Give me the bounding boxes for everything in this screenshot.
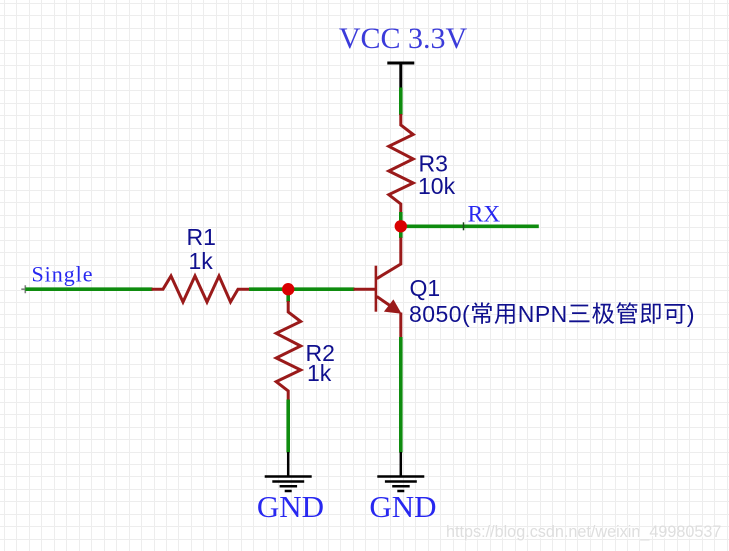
svg-text:1k: 1k bbox=[307, 360, 332, 386]
svg-text:GND: GND bbox=[369, 489, 436, 524]
power symbol VCC bar bbox=[387, 63, 414, 89]
emitter arrowhead Q1 bbox=[384, 299, 402, 313]
wire Single to R1 bbox=[25, 287, 152, 291]
wire joint tick on RX wire bbox=[463, 222, 465, 230]
base bar Q1 bbox=[375, 266, 378, 312]
wire base node to Q1 base bbox=[288, 287, 354, 291]
wire R3 to collector node bbox=[399, 212, 403, 238]
svg-text:VCC 3.3V: VCC 3.3V bbox=[339, 22, 468, 55]
resistor R2 bbox=[276, 301, 301, 401]
wire VCC bar to R3 bbox=[399, 88, 403, 116]
svg-text:1k: 1k bbox=[189, 248, 214, 274]
junction node at R3 / RX / collector bbox=[395, 220, 407, 232]
junction node at R1 / R2 / base bbox=[282, 283, 294, 295]
svg-text:RX: RX bbox=[468, 201, 501, 227]
svg-text:8050(: 8050( bbox=[409, 301, 470, 327]
emitter pin Q1 bbox=[399, 313, 402, 339]
wire RX branch bbox=[401, 225, 539, 229]
wire R2 to GND bbox=[286, 400, 290, 453]
svg-text:GND: GND bbox=[257, 489, 324, 524]
wire R1 to base node bbox=[249, 287, 288, 291]
svg-text:NPN: NPN bbox=[518, 301, 568, 327]
ground symbol right bbox=[377, 452, 424, 491]
svg-text:https://blog.csdn.net/weixin_4: https://blog.csdn.net/weixin_49980537 bbox=[446, 523, 721, 541]
wire Q1 emitter to GND bbox=[399, 337, 403, 453]
transistor Q1 bbox=[354, 238, 401, 339]
svg-text:): ) bbox=[687, 301, 695, 327]
svg-text:Q1: Q1 bbox=[410, 275, 441, 301]
collector pin Q1 bbox=[377, 238, 401, 279]
svg-text:R1: R1 bbox=[187, 224, 216, 250]
resistor R3 bbox=[389, 114, 413, 213]
resistor R1 bbox=[152, 276, 251, 302]
wire node down to R2 bbox=[286, 289, 290, 302]
port cross at Single wire end bbox=[21, 285, 29, 293]
ground symbol left bbox=[265, 452, 312, 491]
base pin Q1 bbox=[354, 288, 376, 291]
svg-text:Single: Single bbox=[32, 262, 94, 287]
svg-text:10k: 10k bbox=[418, 173, 456, 199]
emitter line Q1 bbox=[377, 297, 395, 310]
